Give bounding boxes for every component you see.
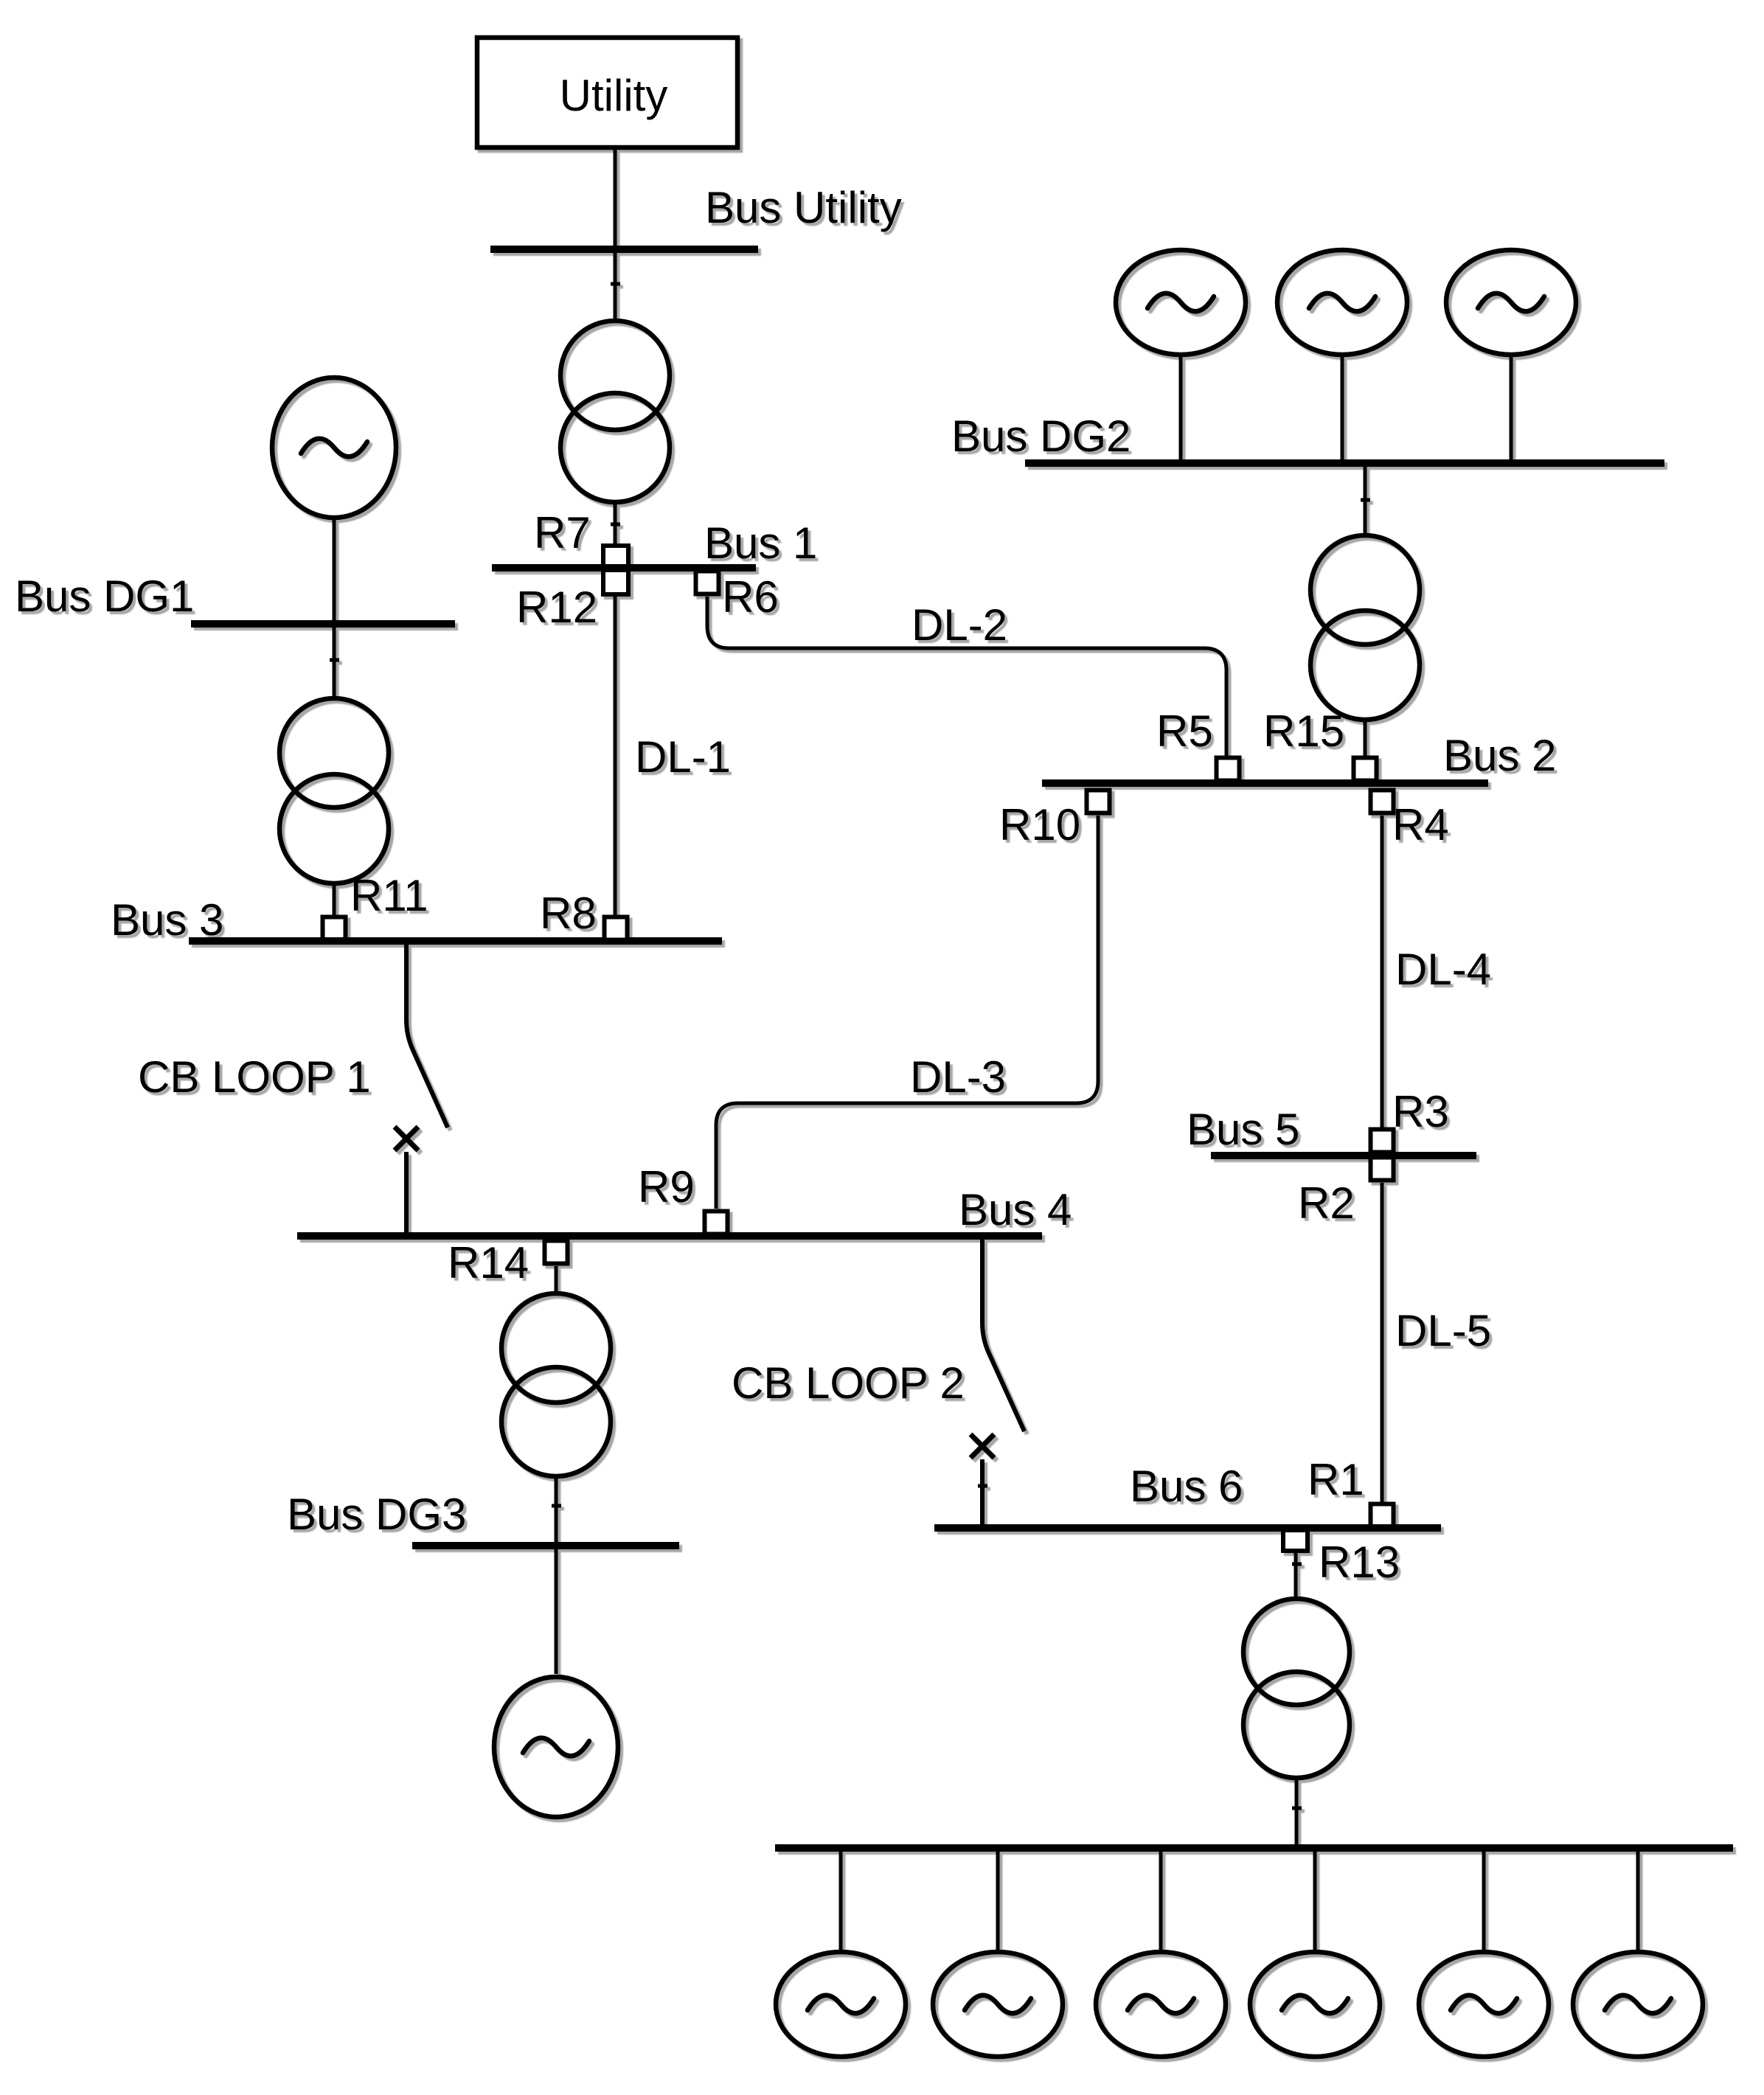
svg-text:R3: R3	[1392, 1087, 1449, 1136]
generator L4	[1250, 1952, 1380, 2057]
transformer T2 (DG2)	[1310, 535, 1420, 720]
breaker R9	[705, 1212, 728, 1234]
junction tick	[1361, 498, 1370, 502]
breaker R14	[545, 1241, 568, 1264]
svg-text:Bus 1: Bus 1	[704, 518, 817, 568]
wire load bus to generator L5	[1482, 1852, 1486, 1951]
svg-text:R5: R5	[1156, 706, 1213, 756]
svg-text:DL-3: DL-3	[910, 1052, 1006, 1102]
svg-text:R11: R11	[350, 871, 428, 920]
wire load bus to generator L3	[1159, 1852, 1163, 1951]
svg-text:R8: R8	[540, 889, 597, 938]
svg-text:R10: R10	[999, 800, 1080, 850]
bus Bus 3	[189, 937, 722, 945]
breaker R6	[696, 571, 719, 594]
wire transformer T1 to breaker R7	[614, 504, 617, 545]
wire DL-5 (R2 to R1)	[1381, 1183, 1384, 1503]
breaker R4	[1371, 791, 1394, 813]
breaker R1	[1371, 1504, 1394, 1527]
CB LOOP 1 wire to Bus 4	[404, 1152, 409, 1232]
generator G3 on Bus DG2	[1446, 250, 1576, 355]
junction tick	[611, 282, 620, 286]
wire T2 to breaker R15	[1364, 721, 1367, 759]
breaker R12	[603, 570, 628, 594]
wire Bus DG3 to generator DG3	[555, 1549, 558, 1674]
svg-text:Bus 2: Bus 2	[1443, 731, 1556, 780]
svg-text:CB LOOP 1: CB LOOP 1	[138, 1052, 371, 1102]
transformer T5 (load)	[1243, 1599, 1350, 1778]
bus Bus 5	[1211, 1152, 1476, 1159]
svg-text:Utility: Utility	[560, 71, 668, 120]
wire generator DG1 to Bus DG1	[333, 520, 336, 621]
wire Bus DG1 to transformer T3	[333, 628, 336, 697]
generator L5	[1419, 1952, 1549, 2057]
generator L2	[933, 1952, 1063, 2057]
generator G2 on Bus DG2	[1277, 250, 1407, 355]
wire G3 to Bus DG2	[1510, 357, 1513, 460]
breaker R7	[603, 546, 628, 566]
svg-text:R2: R2	[1298, 1178, 1355, 1228]
bus load (bottom)	[775, 1844, 1733, 1852]
bus Bus DG1	[191, 620, 455, 628]
breaker R2	[1371, 1158, 1394, 1181]
wire Bus Utility to transformer T1	[614, 253, 617, 320]
svg-text:R14: R14	[448, 1238, 529, 1288]
utility source box	[477, 38, 737, 147]
svg-text:DL-5: DL-5	[1395, 1306, 1491, 1355]
svg-text:R7: R7	[534, 508, 591, 557]
svg-text:Bus 6: Bus 6	[1130, 1462, 1243, 1511]
CB LOOP 1 X contact	[395, 1127, 418, 1150]
generator L1	[776, 1952, 906, 2057]
svg-text:Bus DG3: Bus DG3	[287, 1490, 466, 1539]
transformer T4 (DG3)	[501, 1293, 611, 1476]
wire T4 to Bus DG3	[555, 1478, 558, 1542]
svg-text:DL-2: DL-2	[911, 600, 1007, 650]
wire T5 to load bus	[1295, 1779, 1299, 1844]
bus Bus 4	[297, 1232, 1042, 1240]
svg-text:CB LOOP 2: CB LOOP 2	[732, 1358, 965, 1408]
svg-text:R9: R9	[638, 1162, 695, 1212]
svg-text:Bus DG2: Bus DG2	[951, 411, 1131, 461]
bus Bus 2	[1042, 779, 1488, 787]
wire Bus DG2 to transformer T2	[1364, 467, 1367, 535]
CB LOOP 2 wire to Bus 6	[980, 1459, 985, 1524]
bus Bus 6	[934, 1524, 1441, 1532]
breaker R10	[1087, 791, 1110, 813]
junction tick	[330, 659, 339, 662]
junction tick	[1292, 1563, 1302, 1566]
junction tick	[978, 1484, 987, 1488]
CB LOOP 2 X contact	[970, 1434, 994, 1458]
wire load bus to generator L4	[1313, 1852, 1317, 1951]
generator L3	[1096, 1952, 1226, 2057]
wire DL-3 (R10 to R9)	[716, 816, 1098, 1209]
svg-text:Bus DG1: Bus DG1	[15, 571, 194, 621]
svg-text:R1: R1	[1308, 1455, 1364, 1504]
breaker R11	[323, 917, 346, 940]
svg-text:R13: R13	[1319, 1538, 1400, 1587]
wire R14 to transformer T4	[555, 1266, 558, 1293]
CB LOOP 2 wire from Bus 4	[982, 1240, 1024, 1431]
wire utility box to Bus Utility	[614, 147, 617, 246]
wire DL-1 (R12 to R8)	[614, 595, 617, 915]
bus Bus Utility	[490, 246, 758, 253]
transformer T3 (DG1)	[279, 698, 389, 883]
svg-text:R6: R6	[722, 572, 779, 622]
wire DL-4 (R4 to R3)	[1381, 816, 1384, 1128]
svg-text:R15: R15	[1263, 706, 1344, 756]
generator G1 on Bus DG2	[1116, 250, 1246, 355]
svg-text:DL-4: DL-4	[1395, 945, 1491, 994]
transformer T1 (utility)	[560, 321, 670, 502]
junction tick	[552, 1504, 561, 1508]
wire G1 to Bus DG2	[1179, 357, 1183, 460]
wire G2 to Bus DG2	[1341, 357, 1344, 460]
svg-text:R12: R12	[516, 583, 597, 632]
junction tick	[1292, 1807, 1302, 1810]
generator DG1	[272, 378, 396, 518]
svg-text:DL-1: DL-1	[635, 732, 731, 782]
wire load bus to generator L2	[996, 1852, 1000, 1951]
bus Bus DG2	[1025, 459, 1664, 467]
junction tick	[611, 523, 620, 527]
wire DL-2 (R6 to R5)	[707, 597, 1226, 759]
wire load bus to generator L6	[1636, 1852, 1640, 1951]
svg-text:R4: R4	[1392, 800, 1449, 850]
bus Bus 1	[492, 564, 756, 571]
generator L6	[1573, 1952, 1703, 2057]
generator DG3	[494, 1677, 618, 1817]
svg-text:Bus Utility: Bus Utility	[705, 183, 902, 232]
wire R13 to transformer T5	[1294, 1552, 1298, 1599]
CB LOOP 1 wire from Bus 3	[406, 945, 448, 1128]
breaker R13	[1283, 1530, 1308, 1551]
svg-text:Bus 3: Bus 3	[111, 895, 223, 945]
wire load bus to generator L1	[839, 1852, 843, 1951]
bus Bus DG3	[412, 1542, 679, 1549]
svg-text:Bus 5: Bus 5	[1187, 1105, 1299, 1154]
wire T3 to breaker R11	[333, 885, 336, 915]
breaker R5	[1217, 758, 1240, 781]
breaker R15	[1354, 758, 1377, 781]
svg-text:Bus 4: Bus 4	[959, 1185, 1072, 1234]
breaker R3	[1371, 1130, 1394, 1153]
breaker R8	[605, 917, 628, 940]
